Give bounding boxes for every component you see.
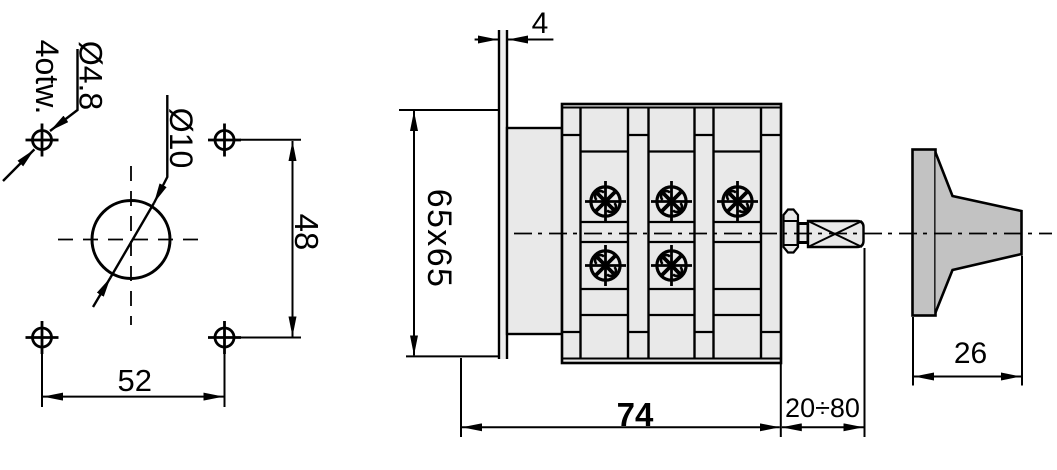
terminal column 2 internal lines — [649, 152, 695, 316]
mounting hole bottom-left — [26, 321, 59, 354]
svg-text:52: 52 — [118, 363, 152, 398]
dimension 20÷80 line with arrows — [782, 426, 822, 428]
narrow strip lines — [562, 135, 781, 332]
dimension 48 extension lines — [240, 139, 301, 141]
inner bottom line — [562, 358, 781, 360]
terminal screw row1 col1 — [585, 181, 626, 222]
diameter line through central circle — [111, 203, 155, 278]
dimension 65x65 extension lines — [399, 109, 499, 111]
svg-text:4: 4 — [532, 7, 549, 40]
lower arrow of central circle diameter — [93, 278, 111, 308]
mounting hole bottom-right — [208, 321, 241, 354]
dimension 26 line with arrows — [914, 376, 967, 378]
svg-text:Ø10: Ø10 — [163, 108, 199, 168]
central hole circle Ø10 — [92, 201, 170, 279]
mounting panel plate — [499, 30, 507, 359]
main block body — [562, 104, 781, 363]
terminal screw row2 col2 — [651, 245, 692, 286]
knob flange — [913, 150, 936, 316]
shaft nut — [784, 210, 799, 253]
inner top line — [562, 107, 781, 109]
svg-text:Ø4.8: Ø4.8 — [73, 41, 109, 110]
column divider lines — [581, 108, 762, 359]
shaft square boss — [798, 224, 808, 243]
dimension 52 line with arrows — [43, 396, 133, 398]
terminal screw row1 col3 — [717, 181, 758, 222]
shaft cross X — [808, 221, 862, 247]
dimension 74 extension lines — [460, 358, 462, 437]
dimension 74 line with arrows — [462, 426, 620, 428]
dimension 48 line with arrows — [292, 141, 294, 238]
leader Ø10 with arrow — [154, 95, 167, 203]
svg-text:26: 26 — [954, 337, 987, 370]
rear housing section — [507, 128, 562, 334]
terminal column 1 internal lines — [581, 152, 629, 316]
terminal screw row1 col2 — [651, 181, 692, 222]
lower arrow of Ø4.8 — [3, 149, 34, 181]
dimension 20÷80 extension line — [864, 248, 866, 437]
centerline vertical (left view) — [130, 166, 132, 325]
terminal screw row2 col1 — [585, 245, 626, 286]
mounting hole top-left — [26, 124, 59, 157]
dimension 26 extension lines — [912, 317, 914, 386]
svg-text:20÷80: 20÷80 — [785, 393, 860, 423]
dimension 52 extension lines — [41, 351, 43, 407]
svg-text:74: 74 — [617, 396, 654, 433]
centerline horizontal (left view) — [58, 239, 206, 241]
svg-text:4otw.: 4otw. — [29, 40, 65, 115]
mounting hole top-right — [208, 124, 241, 157]
leader Ø4.8 with arrow to top-left hole — [50, 49, 78, 131]
svg-text:48: 48 — [288, 214, 325, 251]
svg-text:65x65: 65x65 — [420, 189, 458, 289]
knob cone — [936, 153, 1022, 313]
main centerline — [514, 233, 1052, 235]
dimension 4 (panel thickness) — [475, 39, 498, 41]
dimension 65x65 line with arrows — [413, 111, 415, 233]
terminal column 3 internal lines — [714, 152, 762, 316]
shaft — [808, 221, 864, 247]
